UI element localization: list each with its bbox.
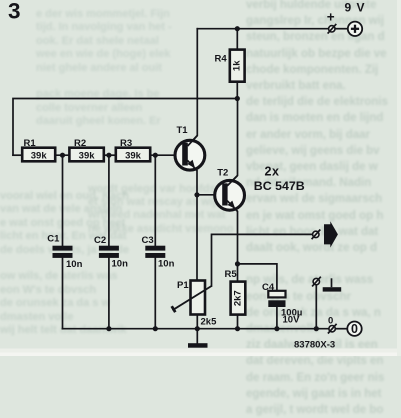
svg-text:10n: 10n: [112, 259, 129, 270]
svg-text:R2: R2: [74, 138, 86, 149]
svg-text:T2: T2: [217, 167, 228, 178]
svg-text:R1: R1: [24, 138, 37, 149]
svg-text:83780X-3: 83780X-3: [294, 340, 335, 351]
svg-text:39k: 39k: [125, 151, 142, 162]
svg-text:2k7: 2k7: [233, 290, 244, 306]
svg-text:P1: P1: [177, 280, 189, 291]
svg-text:R3: R3: [120, 138, 132, 149]
svg-text:BC 547B: BC 547B: [254, 179, 305, 193]
svg-text:10n: 10n: [158, 259, 175, 270]
svg-text:1k: 1k: [232, 60, 243, 71]
svg-text:R4: R4: [215, 54, 228, 65]
svg-text:10n: 10n: [66, 259, 83, 270]
svg-text:C2: C2: [94, 235, 106, 246]
svg-text:10V: 10V: [283, 315, 301, 326]
svg-text:39k: 39k: [79, 151, 96, 162]
svg-text:9 V: 9 V: [345, 0, 366, 14]
svg-text:+: +: [327, 9, 335, 24]
svg-text:3: 3: [8, 0, 21, 24]
svg-text:R5: R5: [225, 269, 238, 280]
svg-text:0: 0: [351, 322, 358, 336]
svg-text:C1: C1: [47, 234, 60, 245]
svg-text:39k: 39k: [31, 151, 48, 162]
svg-text:C4: C4: [262, 282, 275, 293]
svg-text:2x: 2x: [265, 164, 280, 178]
svg-text:C3: C3: [142, 235, 154, 246]
svg-text:0: 0: [328, 316, 333, 327]
svg-text:2k5: 2k5: [201, 317, 218, 328]
svg-text:T1: T1: [177, 125, 189, 136]
